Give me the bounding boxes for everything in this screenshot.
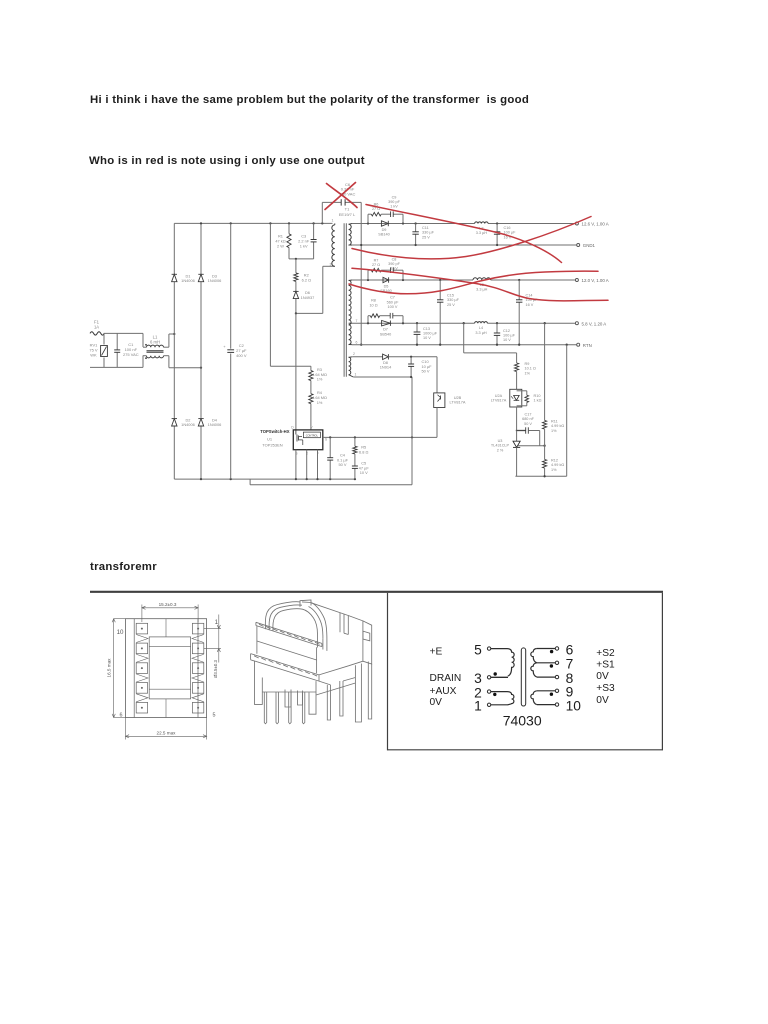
svg-text:1A: 1A: [94, 325, 99, 330]
dimension 22.5 max: [125, 718, 127, 740]
optocoupler U2A: [510, 389, 522, 407]
svg-text:3.3 µH: 3.3 µH: [476, 288, 488, 292]
svg-text:5: 5: [213, 713, 216, 719]
svg-text:400 V: 400 V: [236, 353, 247, 358]
capacitor C6 (Y-cap, crossed out): [321, 202, 323, 223]
svg-text:3.3 µH: 3.3 µH: [476, 231, 488, 235]
svg-text:25 V: 25 V: [447, 303, 455, 307]
svg-text:50 V: 50 V: [524, 422, 532, 426]
svg-text:10 Ω: 10 Ω: [369, 303, 377, 307]
node GND1: [577, 244, 580, 247]
svg-text:C15: C15: [447, 294, 454, 298]
phase dot pin2: [493, 693, 496, 696]
svg-text:LTV817A: LTV817A: [450, 400, 466, 405]
svg-text:R12: R12: [551, 459, 558, 463]
svg-text:C8: C8: [392, 257, 397, 261]
capacitor C16: [496, 224, 498, 232]
svg-text:C9: C9: [392, 195, 397, 199]
diode D5: [383, 277, 389, 282]
svg-text:0V: 0V: [596, 671, 609, 682]
svg-text:5: 5: [474, 642, 482, 657]
svg-text:50 V: 50 V: [338, 462, 346, 467]
capacitor C5: [354, 454, 356, 466]
figure right border: [661, 593, 663, 751]
svg-text:1%: 1%: [525, 371, 531, 375]
svg-text:74030: 74030: [503, 712, 542, 728]
svg-text:Ø3.5±0.3: Ø3.5±0.3: [213, 659, 218, 678]
svg-text:1%: 1%: [317, 377, 323, 382]
svg-text:DRAIN: DRAIN: [430, 673, 462, 684]
pinout winding 6-7-8: [537, 648, 556, 650]
svg-text:2 %: 2 %: [497, 448, 504, 452]
svg-text:1 kV: 1 kV: [300, 243, 308, 248]
inductor L3: [473, 278, 491, 280]
svg-text:SB140: SB140: [378, 233, 389, 237]
bobbin outline: [126, 619, 207, 718]
T1 secondary winding 12V/5.8V: [349, 280, 351, 344]
svg-text:25 V: 25 V: [422, 235, 430, 239]
capacitor C10: [410, 357, 412, 364]
svg-text:1N4006: 1N4006: [181, 278, 195, 283]
resistor R3: [310, 366, 312, 370]
capacitor C17: [516, 407, 518, 431]
figure top border: [90, 591, 663, 593]
phase dot 9: [550, 693, 553, 696]
resistor R1: [288, 223, 290, 233]
figure divider: [387, 593, 389, 751]
svg-text:1 kV: 1 kV: [390, 267, 398, 271]
svg-text:+E: +E: [430, 647, 443, 658]
svg-text:4.99 kΩ: 4.99 kΩ: [551, 424, 564, 428]
wire line sense: [269, 223, 271, 366]
node 12.0V output: [575, 279, 578, 282]
svg-text:D7: D7: [383, 328, 388, 332]
svg-text:1: 1: [355, 373, 357, 377]
svg-text:+S3: +S3: [596, 683, 615, 694]
svg-text:12.6 V, 1.00 A: 12.6 V, 1.00 A: [582, 222, 609, 227]
svg-text:+: +: [223, 344, 226, 349]
capacitor C7: [380, 315, 391, 317]
resistor R5: [354, 437, 356, 446]
wire feedback tap: [463, 323, 465, 353]
wire ref node: [539, 431, 541, 446]
capacitor C3: [313, 223, 315, 239]
svg-text:R8: R8: [371, 299, 376, 303]
svg-text:S: S: [325, 438, 328, 442]
wire choke to bridge: [143, 346, 147, 348]
svg-text:1%: 1%: [317, 400, 323, 405]
svg-text:6: 6: [356, 341, 358, 345]
node 12.6V output: [575, 222, 578, 225]
svg-text:390 pF: 390 pF: [388, 200, 401, 204]
svg-text:5.8 V, 1.20 A: 5.8 V, 1.20 A: [582, 321, 607, 326]
svg-text:1N914: 1N914: [380, 365, 392, 370]
bobbin pins: [136, 623, 147, 634]
resistor R7 snubber: [367, 270, 369, 280]
pinout core: [521, 648, 525, 706]
svg-text:CONTROL: CONTROL: [306, 434, 319, 437]
dimension pin pitch: [204, 628, 221, 630]
svg-text:16.5 max: 16.5 max: [107, 658, 112, 678]
node 5.8V output: [575, 322, 578, 325]
svg-text:8: 8: [566, 671, 574, 686]
diode D7: [382, 321, 391, 326]
3d transformer sketch: [251, 600, 372, 724]
svg-text:RTN: RTN: [583, 343, 592, 348]
wire 5.8V rail: [352, 322, 475, 324]
figure bottom border: [388, 749, 663, 751]
svg-text:+S1: +S1: [596, 660, 615, 671]
capacitor C9: [381, 213, 390, 215]
resistor R9: [516, 353, 518, 363]
svg-text:15.2±0.3: 15.2±0.3: [159, 602, 177, 607]
svg-text:10.1 Ω: 10.1 Ω: [525, 367, 536, 371]
svg-text:275 VAC: 275 VAC: [123, 352, 139, 357]
svg-text:D: D: [291, 425, 294, 429]
svg-text:2 W: 2 W: [277, 243, 284, 248]
svg-text:V: V: [310, 425, 313, 429]
dimension 16.5 max: [114, 618, 126, 620]
capacitor C13: [416, 323, 418, 332]
svg-text:2: 2: [353, 352, 355, 356]
svg-text:+S2: +S2: [596, 648, 615, 659]
svg-text:1N4006: 1N4006: [208, 422, 222, 427]
svg-text:680 nF: 680 nF: [522, 417, 535, 421]
node RTN: [577, 343, 580, 346]
svg-text:1%: 1%: [551, 429, 557, 433]
svg-text:C12: C12: [503, 329, 510, 333]
svg-text:R9: R9: [525, 362, 530, 366]
wire control node: [323, 436, 437, 438]
diode D2: [173, 426, 175, 479]
svg-text:560 pF: 560 pF: [387, 300, 400, 304]
diode D9: [381, 221, 388, 226]
svg-text:10: 10: [566, 699, 582, 714]
pinout primary winding: [491, 648, 508, 650]
diode D1: [173, 223, 175, 274]
svg-text:C17: C17: [525, 412, 532, 416]
red cross over C6: [327, 184, 358, 208]
svg-text:6: 6: [566, 642, 574, 657]
svg-text:1 kV: 1 kV: [390, 205, 398, 209]
svg-text:T1: T1: [345, 207, 350, 212]
IC U1 TOP253EN: [293, 430, 323, 450]
capacitor C11: [415, 224, 417, 232]
svg-text:WK: WK: [90, 353, 97, 358]
svg-text:10: 10: [117, 629, 124, 636]
resistor R6 snubber: [367, 214, 369, 223]
wire drain to U1: [295, 313, 297, 430]
inductor L4: [475, 322, 488, 324]
capacitor C2: [230, 223, 232, 348]
svg-text:390 pF: 390 pF: [388, 262, 401, 266]
svg-text:U3: U3: [498, 439, 503, 443]
svg-text:TOP253EN: TOP253EN: [262, 443, 282, 448]
svg-text:1 kΩ: 1 kΩ: [534, 399, 542, 403]
resistor R8 snubber: [367, 316, 369, 324]
optocoupler U2B: [436, 357, 438, 393]
T1 secondary winding 12.6V: [349, 224, 352, 245]
svg-text:7: 7: [566, 657, 574, 672]
svg-text:10 V: 10 V: [503, 338, 511, 342]
wire source return loop: [249, 479, 251, 485]
svg-text:C16: C16: [504, 226, 511, 230]
svg-text:22.5 max: 22.5 max: [157, 730, 177, 735]
svg-text:50 V: 50 V: [422, 369, 430, 374]
svg-text:1N4006: 1N4006: [208, 278, 222, 283]
common-mode choke L1: [147, 345, 164, 347]
svg-text:6 mH: 6 mH: [150, 340, 160, 345]
dimension 15.2: [141, 605, 143, 623]
phase dot pin3: [494, 672, 497, 675]
bobbin window: [149, 637, 190, 699]
wire bias return: [353, 376, 412, 378]
resistor R11: [544, 323, 546, 420]
U1 pins to B-: [295, 450, 297, 479]
resistor R4: [310, 381, 312, 394]
capacitor C15: [439, 280, 441, 300]
svg-text:R10: R10: [534, 394, 541, 398]
svg-text:27 Ω: 27 Ω: [372, 263, 380, 267]
svg-text:100 V: 100 V: [388, 305, 398, 309]
wire 12.6V rail: [352, 223, 475, 225]
wire GND1 rail: [352, 244, 577, 246]
svg-text:100 µF: 100 µF: [503, 334, 516, 338]
diode D8 (bias): [352, 356, 382, 358]
svg-text:3: 3: [474, 671, 482, 686]
svg-text:C14: C14: [526, 294, 533, 298]
svg-text:330 µF: 330 µF: [447, 298, 460, 302]
capacitor C8: [381, 269, 390, 271]
wire clamp bottom: [289, 258, 314, 260]
svg-text:0V: 0V: [596, 695, 609, 706]
inductor L2: [475, 222, 489, 224]
phase dots 6,7: [550, 650, 553, 653]
svg-text:1000 µF: 1000 µF: [423, 332, 438, 336]
resistor R12: [544, 429, 546, 459]
svg-text:1%: 1%: [551, 468, 557, 472]
svg-text:+AUX: +AUX: [430, 686, 457, 697]
svg-text:0V: 0V: [430, 697, 443, 708]
svg-text:1N4937: 1N4937: [301, 295, 315, 300]
svg-text:1: 1: [332, 219, 334, 223]
svg-text:6.2 Ω: 6.2 Ω: [302, 277, 311, 282]
svg-text:LTV817A: LTV817A: [491, 399, 507, 403]
wire AC top rail: [104, 332, 143, 334]
svg-text:TOPSwitch-HX: TOPSwitch-HX: [260, 429, 289, 434]
capacitor C12: [496, 323, 498, 333]
svg-text:10 V: 10 V: [360, 470, 368, 475]
wire AC bottom rail: [90, 366, 143, 368]
svg-text:R11: R11: [551, 419, 558, 423]
capacitor C1: [116, 333, 118, 349]
svg-text:1N4006: 1N4006: [181, 422, 195, 427]
svg-text:3: 3: [330, 263, 332, 267]
svg-text:TL431CLP: TL431CLP: [491, 444, 510, 448]
T1 core: [343, 223, 345, 376]
wire B- bottom bus: [174, 478, 355, 480]
T1 primary winding: [332, 225, 335, 266]
svg-text:330 µF: 330 µF: [422, 231, 435, 235]
svg-text:C11: C11: [422, 226, 429, 230]
svg-text:GND1: GND1: [583, 243, 596, 248]
capacitor C4: [329, 437, 331, 457]
resistor R10: [517, 390, 527, 392]
svg-text:4.99 kΩ: 4.99 kΩ: [551, 463, 564, 467]
wire drain node: [296, 312, 323, 314]
svg-text:3.3 µH: 3.3 µH: [475, 331, 487, 335]
pinout winding 9-10: [537, 690, 556, 692]
wire RTN rail: [352, 344, 577, 346]
wire feedback return: [515, 475, 566, 477]
svg-text:L4: L4: [479, 326, 483, 330]
T1 bias winding: [349, 357, 351, 374]
svg-text:1: 1: [215, 619, 219, 626]
svg-text:16 V: 16 V: [526, 303, 534, 307]
pinout pins 6-10 circles: [555, 647, 558, 650]
svg-text:10 V: 10 V: [423, 336, 431, 340]
svg-text:R7: R7: [374, 258, 379, 262]
svg-text:EE19/7 L: EE19/7 L: [339, 212, 356, 217]
svg-text:SB540: SB540: [380, 332, 391, 336]
svg-text:U2A: U2A: [495, 394, 503, 398]
resistor R2: [295, 259, 297, 273]
diode D3: [200, 223, 202, 274]
svg-text:1: 1: [474, 699, 482, 714]
wire 12.0V rail: [352, 279, 473, 281]
wire B+ top bus: [174, 222, 332, 224]
svg-text:12.0 V, 1.00 A: 12.0 V, 1.00 A: [582, 278, 609, 283]
svg-text:7: 7: [356, 319, 358, 323]
diode D4: [200, 426, 202, 479]
svg-text:6.8 Ω: 6.8 Ω: [359, 449, 368, 454]
svg-text:9: 9: [566, 685, 574, 700]
pinout aux winding: [491, 691, 508, 693]
red curve band1 down: [366, 205, 562, 263]
svg-text:D9: D9: [382, 228, 387, 232]
svg-text:U1: U1: [267, 436, 273, 441]
shunt regulator U3 TL431: [516, 431, 518, 442]
svg-text:C7: C7: [390, 296, 395, 300]
svg-text:C13: C13: [423, 327, 430, 331]
red curve band2 down: [352, 268, 608, 301]
fuse F1: [90, 332, 104, 335]
red curve band1 up: [352, 217, 591, 259]
svg-text:D5: D5: [384, 285, 389, 289]
diode D6: [295, 281, 297, 291]
varistor RV1: [103, 333, 105, 344]
capacitor C14: [518, 280, 520, 300]
red curve band2 up: [349, 271, 598, 294]
